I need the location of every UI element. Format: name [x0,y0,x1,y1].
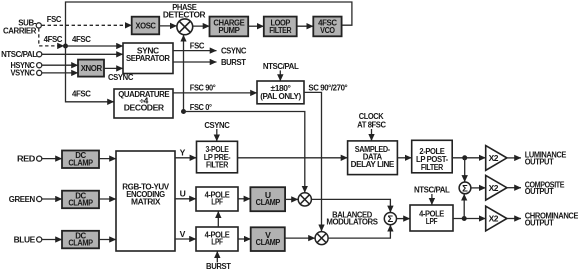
wire BURST into V LPF [206,251,232,270]
amp X2 luminance [486,146,507,171]
wire V LPF to V clamp [238,238,251,240]
svg-text:NTSC/PAL: NTSC/PAL [263,61,299,71]
svg-text:CARRIER: CARRIER [3,25,37,35]
svg-text:FSC: FSC [190,41,204,51]
svg-text:OUTPUT: OUTPUT [525,217,555,227]
wire luminance output [507,150,567,167]
wire Y matrix to pre-filter [175,148,196,158]
wire delay line to post-filter [397,157,411,159]
wire burst V LPF up to U LPF [217,211,219,227]
block 4-POLE LPF U path [196,187,238,211]
svg-text:OUTPUT: OUTPUT [525,186,555,196]
block 2-POLE LP POST-FILTER [412,140,453,173]
wire SC 90/270 from 180 block to V modulator [304,83,348,232]
svg-text:LPF: LPF [426,216,438,226]
svg-text:(PAL ONLY): (PAL ONLY) [260,91,301,101]
block 4-POLE LPF V path [196,227,238,251]
wire FSC 90 quadrature to 180 block [173,83,257,93]
op sigma1 summer [384,213,396,226]
svg-text:BLUE: BLUE [14,234,36,244]
wire VCO feedback top loop [66,2,352,46]
block 4-POLE LPF chroma [410,205,453,231]
svg-text:X2: X2 [489,214,499,224]
svg-text:FSC: FSC [47,14,61,24]
block DC CLAMP red [62,150,99,168]
wire V clamp to V modulator [285,237,315,239]
block SYNC SEPARATOR [123,43,173,74]
node chrominance junction [462,216,467,221]
wire CSYNC into pre-filter [204,120,229,141]
wire composite output [507,179,565,196]
svg-text:4FSC: 4FSC [72,34,91,44]
wire BLUE to DC clamp [42,239,62,241]
svg-text:DETECTOR: DETECTOR [163,9,206,19]
op U modulator [298,193,311,206]
wire DC clamp blue to matrix [99,239,116,241]
block 4FSC VCO [313,17,341,37]
wire sigma1 to 4-pole LPF [397,218,411,220]
svg-text:FSC 90°: FSC 90° [190,83,216,93]
wire CLOCK AT 8FSC into delay line [357,111,386,141]
wire FSC 0 quadrature to U modulator [184,102,305,193]
block QUADRATURE /4 DECODER [114,89,173,118]
svg-text:Σ: Σ [462,183,468,194]
svg-text:LPF: LPF [211,237,223,247]
wire GREEN to DC clamp [42,198,62,200]
svg-text:XNOR: XNOR [81,63,103,73]
svg-text:CSYNC: CSYNC [204,120,229,130]
svg-text:FILTER: FILTER [421,162,444,172]
svg-text:U: U [180,188,186,198]
svg-text:4FSC: 4FSC [72,88,91,98]
wire U LPF to U clamp [238,198,250,200]
terminal HSYNC [11,60,42,70]
label BALANCED MODULATORS [326,209,378,226]
node 4FSC junction [63,44,68,49]
svg-text:BURST: BURST [206,261,232,270]
wire U modulator to sigma1 [311,199,390,212]
wire U matrix to 4-pole LPF [175,188,196,198]
wire FSC from quadrature up to phase detector [184,35,205,112]
wire chrominance junction up to sigma2 [463,194,465,219]
svg-text:FILTER: FILTER [206,159,229,169]
wire V matrix to 4-pole LPF [175,229,196,239]
block RGB-TO-YUV ENCODING MATRIX [116,151,175,251]
svg-text:CLAMP: CLAMP [68,198,93,208]
svg-text:Y: Y [180,148,186,158]
terminal VSYNC [11,67,42,77]
wire sigma2 to X2 composite [471,187,486,189]
op V modulator [315,232,328,245]
block 3-POLE LP PRE-FILTER [197,141,238,173]
wire chroma LPF to X2 chrominance [453,218,486,220]
svg-text:DELAY LINE: DELAY LINE [351,159,395,169]
wire 4FSC junction down to quadrature decoder [66,46,115,102]
svg-text:CLAMP: CLAMP [256,197,281,207]
svg-text:CSYNC: CSYNC [221,46,246,56]
block +/-180 PAL ONLY [257,81,304,104]
wire sync separator BURST output [173,57,247,67]
svg-text:MATRIX: MATRIX [131,196,161,206]
svg-text:XOSC: XOSC [135,20,155,30]
wire VSYNC to XNOR [42,72,78,74]
terminal BLUE [14,234,42,244]
op sigma2 summer [459,182,471,194]
wire chrominance output [507,211,578,228]
svg-text:PUMP: PUMP [218,25,240,35]
terminal GREEN [9,194,42,204]
svg-text:FSC 0°: FSC 0° [190,102,213,112]
wire DC clamp red to matrix [99,158,116,160]
terminal RED [17,153,42,163]
wire NTSC/PAL to sync separator [42,53,123,55]
wire V modulator to sigma1 [328,225,390,238]
svg-text:Σ: Σ [388,214,394,225]
svg-text:BURST: BURST [221,57,247,67]
node FSC 0 junction [181,109,186,114]
block SAMPLED-DATA DELAY LINE [348,141,398,175]
wire charge pump to loop filter [248,25,264,27]
block XOSC [132,17,160,35]
svg-text:CLAMP: CLAMP [256,237,281,247]
wire sync separator CSYNC output [173,46,246,56]
wire NTSC/PAL into right 4-pole LPF [414,185,450,205]
svg-text:DECODER: DECODER [124,102,165,112]
block XNOR [78,60,104,77]
wire HSYNC to XNOR [42,64,78,66]
svg-text:FILTER: FILTER [269,25,292,35]
block V CLAMP [251,227,285,251]
svg-text:OUTPUT: OUTPUT [525,156,555,166]
svg-text:4FSC: 4FSC [44,34,63,44]
wire 4FSC junction to sync separator [66,34,124,46]
wire FSC dashed subcarrier to XOSC [42,14,132,26]
svg-text:SC 90°/270°: SC 90°/270° [308,83,348,93]
wire loop filter to VCO [297,25,314,27]
wire XNOR CSYNC to sync separator [104,68,133,82]
svg-text:RED: RED [17,153,35,163]
svg-text:NTSC/PAL: NTSC/PAL [1,49,37,59]
block CHARGE PUMP [210,17,249,37]
wire DC clamp green to matrix [99,198,116,200]
block U CLAMP [250,187,285,211]
svg-text:VCO: VCO [320,25,335,35]
block DC CLAMP green [62,190,99,208]
block LOOP FILTER [264,17,297,37]
svg-text:CLAMP: CLAMP [68,238,93,248]
op phase detector [163,2,206,35]
wire pre-filter to delay line [238,157,348,159]
svg-text:GREEN: GREEN [9,194,35,204]
amp X2 composite [486,175,507,200]
svg-text:X2: X2 [489,183,499,193]
wire post-filter to X2 luminance [452,157,485,159]
wire RED to DC clamp [42,158,62,160]
wire 4FSC dashed subcarrier to junction [39,28,64,46]
svg-text:CLAMP: CLAMP [68,157,93,167]
wire NTSC/PAL into 180 block [263,61,299,81]
amp X2 chrominance [486,206,507,231]
svg-text:SEPARATOR: SEPARATOR [126,53,171,63]
node luminance junction [462,155,467,160]
wire XOSC to phase detector [159,25,177,27]
wire U clamp to U modulator [285,198,298,200]
svg-text:NTSC/PAL: NTSC/PAL [414,185,450,195]
wire luminance junction down to sigma2 [464,158,466,182]
svg-text:X2: X2 [489,153,499,163]
svg-text:LPF: LPF [211,197,223,207]
terminal NTSC/PAL [1,49,42,59]
terminal SUB-CARRIER [3,18,41,36]
block DC CLAMP blue [62,231,99,249]
wire phase detector to charge pump [193,25,210,27]
svg-text:AT 8FSC: AT 8FSC [357,120,386,130]
svg-text:V: V [180,229,186,239]
svg-text:VSYNC: VSYNC [11,67,35,77]
svg-text:MODULATORS: MODULATORS [326,216,378,226]
